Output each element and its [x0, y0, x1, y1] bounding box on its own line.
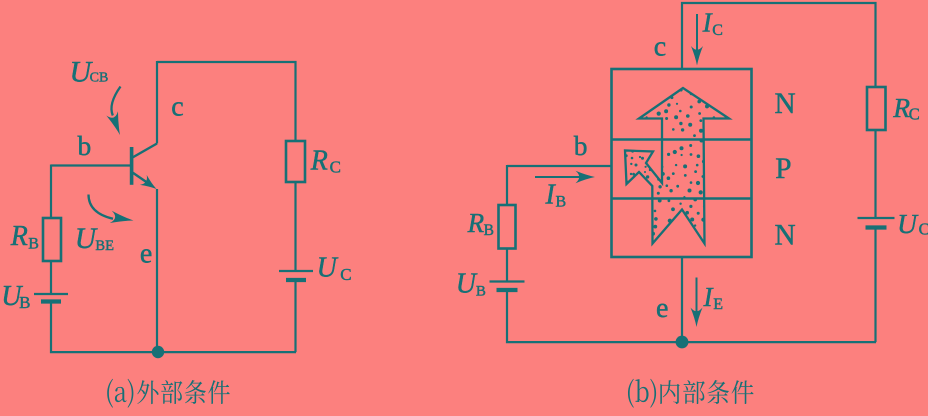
svg-text:UCB: UCB	[70, 55, 109, 88]
battery UB of circuit (b)	[490, 280, 525, 282]
wire: RB to battery UB of circuit (b)	[506, 249, 508, 282]
stipple dots inside carrier-flow arrows	[625, 89, 729, 236]
svg-text:IE: IE	[703, 282, 723, 313]
svg-text:N: N	[775, 219, 796, 251]
wire: emitter lead vertical down to bottom rail	[156, 189, 158, 352]
resistor RC of circuit (b)	[867, 87, 886, 130]
node: emitter junction dot on bottom rail of circuit (a)	[152, 346, 164, 358]
svg-text:e: e	[140, 239, 152, 270]
svg-text:RC: RC	[892, 92, 919, 124]
battery UB of circuit (a)	[34, 293, 68, 295]
svg-text:UB: UB	[1, 281, 30, 312]
svg-text:IC: IC	[702, 8, 723, 39]
arrow IC current into collector	[696, 14, 698, 50]
svg-text:P: P	[775, 153, 791, 185]
resistor RC of circuit (a)	[286, 141, 305, 182]
wire: base wire of circuit (a) from RB branch to transistor base	[51, 164, 131, 166]
wire: right branch from bottom rail up to UC battery of circuit (a)	[294, 281, 296, 353]
wire: RB to battery UB of circuit (a)	[50, 261, 52, 294]
battery UC of circuit (a)	[279, 270, 313, 272]
svg-text:IB: IB	[545, 180, 567, 211]
svg-text:RC: RC	[310, 145, 341, 176]
svg-text:N: N	[775, 88, 796, 120]
resistor RB of circuit (b)	[499, 205, 516, 249]
wire: base wire into P region of circuit (b)	[507, 165, 612, 167]
svg-text:c: c	[171, 91, 183, 122]
battery UC of circuit (b)	[858, 217, 895, 219]
svg-text:e: e	[656, 293, 668, 324]
wire: emitter lead from box bottom to bottom rail of circuit (b)	[681, 257, 683, 342]
wire: top rail of circuit (b)	[682, 3, 876, 87]
transistor Q1: base bar	[130, 147, 134, 185]
transistor Q1: collector diagonal	[133, 144, 158, 158]
curved arrow for UCB	[111, 87, 120, 116]
svg-text:UB: UB	[456, 269, 486, 300]
wire: UC battery to RC of circuit (a)	[294, 182, 296, 271]
svg-text:RB: RB	[10, 221, 39, 253]
arrow IE current out of emitter	[696, 278, 698, 313]
divider between P and N regions	[612, 197, 752, 199]
wire: RC to UC battery of circuit (b)	[874, 130, 876, 218]
arrow IB current into base	[535, 176, 580, 178]
svg-text:UC: UC	[897, 208, 928, 239]
svg-text:UC: UC	[317, 252, 352, 284]
wire: UC battery to bottom rail of circuit (b)	[874, 228, 876, 343]
caption (a) external conditions	[107, 379, 113, 408]
svg-text:UBE: UBE	[75, 223, 114, 255]
svg-text:b: b	[78, 130, 92, 161]
wire: battery UB to bottom rail of circuit (a)	[51, 302, 296, 353]
svg-text:b: b	[574, 130, 588, 161]
transistor Q1: emitter diagonal with arrow	[133, 173, 151, 185]
wire: RC to top rail of circuit (a)	[157, 62, 296, 141]
divider between N and P regions	[612, 138, 752, 140]
svg-text:RB: RB	[467, 208, 494, 239]
svg-text:c: c	[654, 31, 666, 62]
curved arrow for UBE	[89, 195, 114, 219]
wire: left branch vertical from base node down to RB	[50, 165, 52, 219]
resistor RB of circuit (a)	[43, 218, 61, 261]
transistor structure box of circuit (b)	[612, 69, 752, 257]
node: emitter junction dot on bottom rail of circuit (b)	[676, 336, 689, 349]
wire: UB battery to bottom rail of circuit (b)	[507, 290, 876, 342]
caption (b) internal conditions	[628, 379, 634, 408]
wire: collector lead vertical of transistor	[156, 61, 158, 144]
wire: left branch vertical down to RB of circuit (b)	[506, 165, 508, 205]
